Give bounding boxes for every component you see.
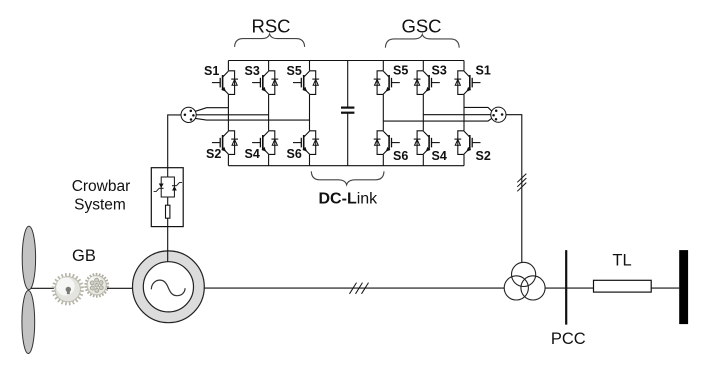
wire: connector to transformer <box>506 115 522 263</box>
svg-text:S5: S5 <box>393 64 408 78</box>
transistor S3 (GSC) <box>414 71 440 95</box>
transistor S5 (RSC) <box>293 71 319 95</box>
wire: connector to RSC phase C <box>195 118 309 120</box>
wire: gearbox to generator <box>107 287 132 289</box>
wind turbine blade (bottom) <box>22 291 35 354</box>
wire: GSC phase C to connector <box>383 118 492 121</box>
svg-text:Crowbar: Crowbar <box>72 178 131 195</box>
bus bar PCC <box>565 250 567 325</box>
svg-text:S1: S1 <box>476 64 491 78</box>
svg-text:S5: S5 <box>287 64 302 78</box>
wire: turbine shaft to gearbox <box>31 287 54 289</box>
svg-text:S6: S6 <box>393 149 408 163</box>
transmission line TL <box>594 280 652 292</box>
svg-text:PCC: PCC <box>551 330 586 348</box>
svg-text:S3: S3 <box>245 64 260 78</box>
svg-text:S2: S2 <box>476 149 491 163</box>
wire: RSC leg 1 <box>227 61 229 166</box>
transistor S2 (RSC) <box>212 131 238 155</box>
wire: generator stator to transformer <box>204 287 504 289</box>
grid-side connector <box>491 107 506 122</box>
grid bus bar (infinite bus) <box>679 250 688 324</box>
wire: connector to RSC phase B <box>196 114 268 116</box>
transistor S4 (GSC) <box>414 131 440 155</box>
transistor S4 (RSC) <box>252 131 278 155</box>
wire: crowbar to rotor slip-ring connector <box>168 115 181 168</box>
generator sine symbol <box>151 280 185 296</box>
transistor S2 (GSC) <box>454 131 480 155</box>
wire: DC-link capacitor top lead <box>347 61 349 108</box>
generator inner circle <box>143 262 193 312</box>
svg-text:DC-Link: DC-Link <box>319 190 379 207</box>
wire: transformer to TL <box>545 287 593 289</box>
DC bus top rail <box>228 60 464 62</box>
svg-text:S3: S3 <box>432 64 447 78</box>
rotor slip-ring connector <box>181 107 196 122</box>
svg-text:S4: S4 <box>432 149 447 163</box>
transistor S1 (GSC) <box>454 71 480 95</box>
transistor S6 (RSC) <box>293 131 319 155</box>
wire: GSC phase A to connector <box>464 107 492 111</box>
wire: GSC leg 3 <box>463 61 465 166</box>
svg-text:GSC: GSC <box>401 15 441 36</box>
three-phase marks (stator line) <box>350 283 369 294</box>
transistor S1 (RSC) <box>212 71 238 95</box>
svg-text:S1: S1 <box>204 64 219 78</box>
wire: DC-link capacitor bottom lead <box>347 114 349 166</box>
wire: connector to RSC phase A <box>195 108 228 112</box>
generator (DFIG) outer ring <box>133 251 205 323</box>
crowbar system box <box>151 168 183 227</box>
wire: crowbar internal (bottom) <box>167 218 169 226</box>
wire: GSC phase B to connector <box>423 114 491 116</box>
svg-text:GB: GB <box>72 247 96 265</box>
crowbar anti-parallel thyristor pair <box>154 177 182 197</box>
wire: RSC leg 2 <box>268 61 270 166</box>
DC bus bottom rail <box>228 165 464 167</box>
transistor S3 (RSC) <box>252 71 278 95</box>
gearbox gear (large) <box>52 273 84 305</box>
svg-text:S4: S4 <box>245 147 260 161</box>
wind turbine blade (top) <box>22 226 35 289</box>
svg-text:RSC: RSC <box>251 15 290 36</box>
brace DC-Link <box>311 171 384 185</box>
capacitor C (DC-link) <box>341 108 354 113</box>
brace RSC <box>235 34 305 47</box>
three-phase marks (GSC line) <box>517 174 526 192</box>
gearbox gear (small) <box>84 273 109 298</box>
transformer <box>504 262 545 300</box>
svg-text:S6: S6 <box>287 147 302 161</box>
transistor S6 (GSC) <box>374 131 400 155</box>
wire: crowbar internal (top) <box>167 168 169 177</box>
svg-text:S2: S2 <box>206 147 221 161</box>
brace GSC <box>385 34 459 47</box>
wire: crowbar internal (middle) <box>167 197 169 205</box>
wire: GSC leg 2 <box>422 61 424 166</box>
svg-text:System: System <box>74 197 126 214</box>
crowbar resistor <box>166 205 170 218</box>
transistor S5 (GSC) <box>374 71 400 95</box>
wire: TL to grid bus <box>651 287 679 289</box>
wire: GSC leg 1 <box>382 61 384 166</box>
svg-text:TL: TL <box>612 252 631 270</box>
wire: RSC leg 3 <box>309 61 311 166</box>
wire: generator rotor to crowbar system <box>167 227 169 262</box>
